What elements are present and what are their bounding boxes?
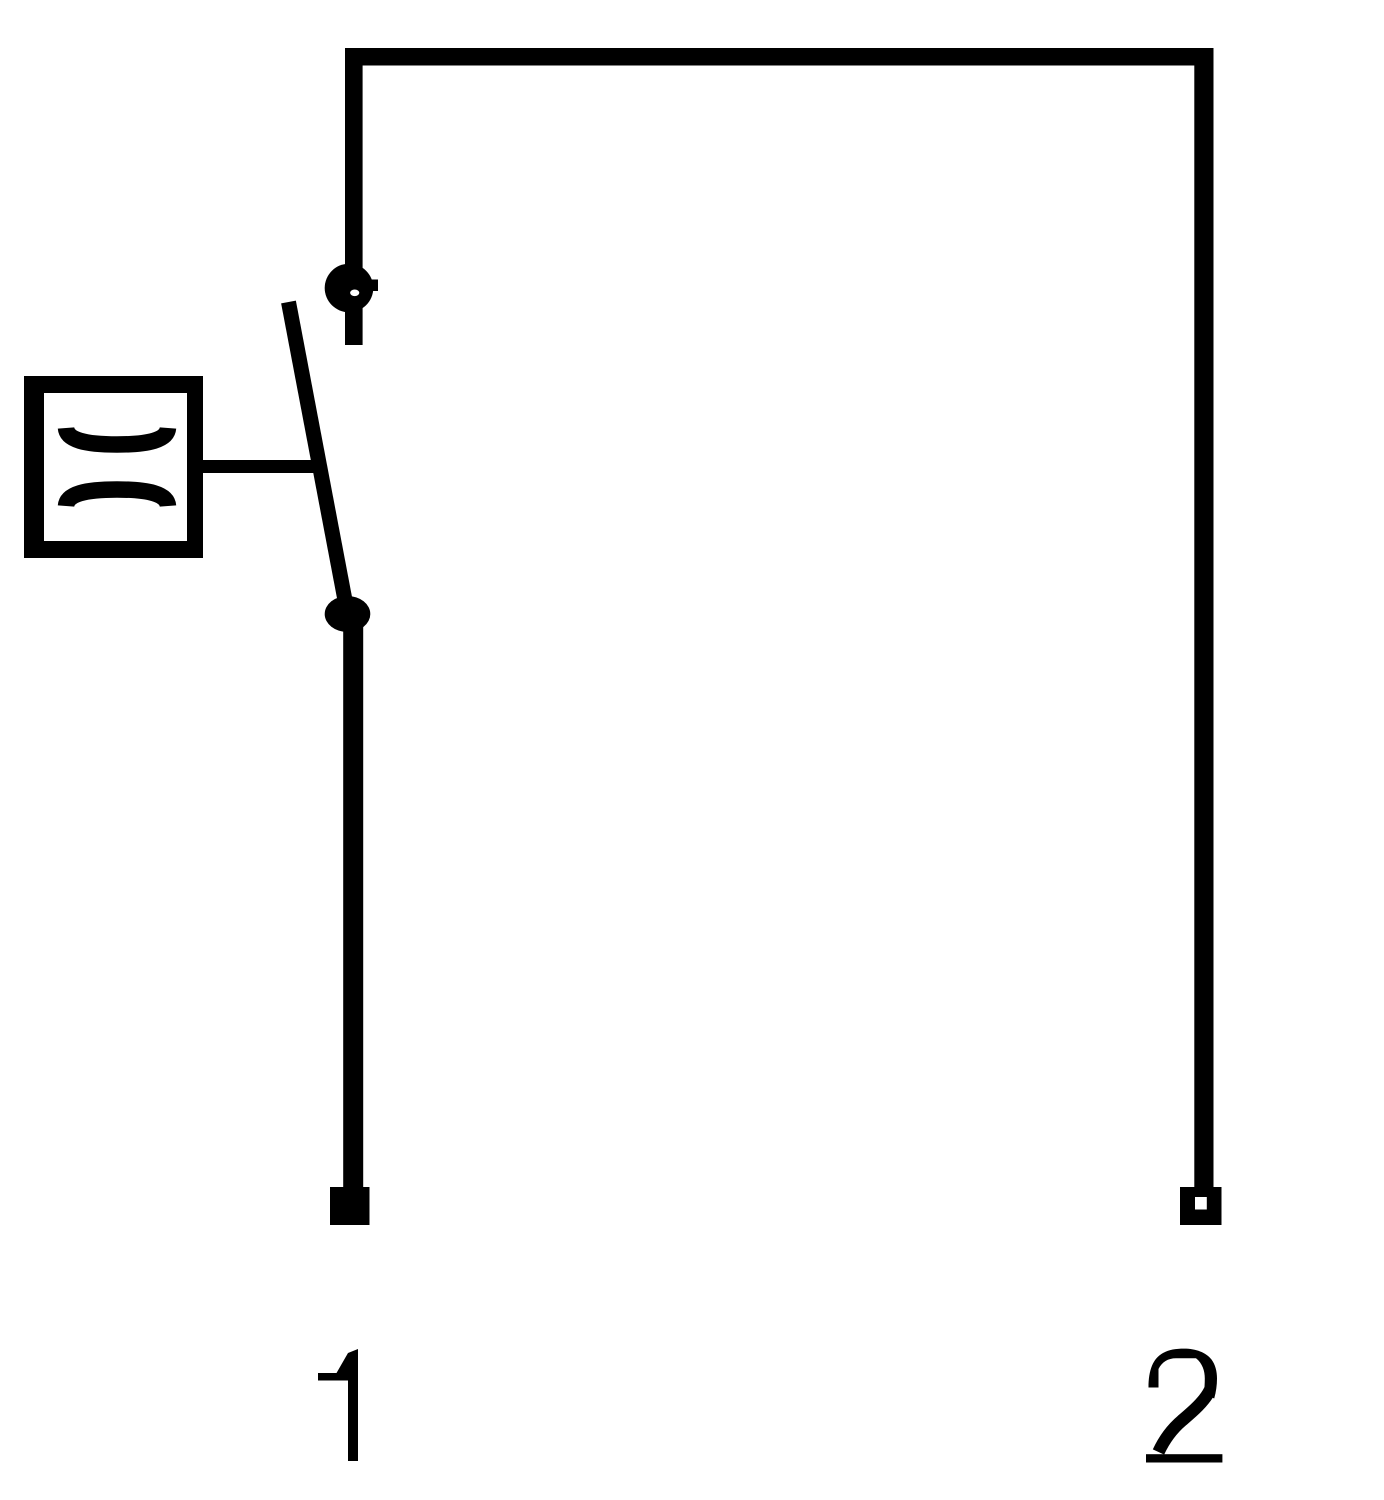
pin label 1 — [318, 1349, 358, 1461]
actuator upper arc — [66, 428, 168, 445]
mechanical link from actuator box to switch blade — [203, 460, 326, 473]
switch S1 upper fixed contact circle — [325, 264, 374, 313]
wire left vertical lower segment (switch to terminal 1) — [343, 614, 363, 1187]
wire left vertical upper segment (terminal 1 branch down to switch fixed contact) — [345, 48, 363, 345]
actuator lower arc — [66, 490, 168, 507]
terminal 1 (filled square pin) — [330, 1187, 370, 1225]
wire top horizontal from node above terminal 1 to node above terminal 2 — [345, 48, 1214, 66]
switch S1 moving blade (normally-open contact) — [289, 302, 349, 616]
wire right vertical (top wire down to terminal 2) — [1194, 48, 1213, 1187]
actuator box B1 (pressure/diaphragm operator) — [24, 376, 203, 558]
pin label 2 — [1146, 1349, 1222, 1463]
switch S1 lower contact junction — [325, 596, 371, 632]
terminal 2 (open square pin) — [1180, 1187, 1222, 1225]
